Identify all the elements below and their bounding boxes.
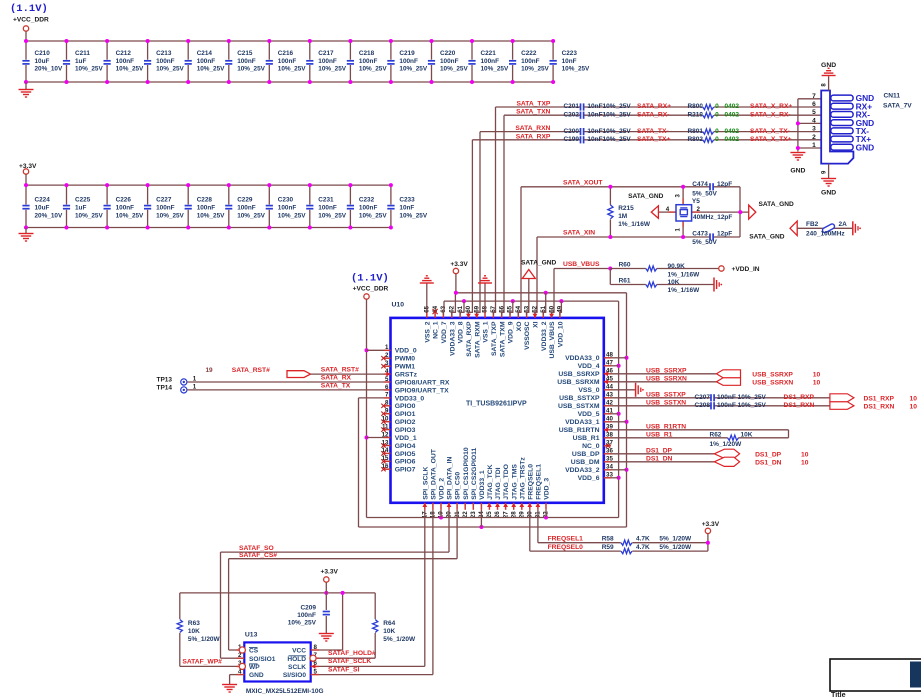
svg-text:SATA_RST#: SATA_RST# bbox=[232, 367, 270, 374]
svg-text:12pF: 12pF bbox=[717, 181, 732, 188]
svg-text:R801: R801 bbox=[687, 128, 703, 135]
svg-text:0402: 0402 bbox=[725, 111, 740, 118]
svg-text:USB_VBUS: USB_VBUS bbox=[549, 321, 556, 358]
svg-text:100nF 10%_25V: 100nF 10%_25V bbox=[717, 402, 766, 409]
svg-text:0402: 0402 bbox=[725, 128, 740, 135]
svg-text:SATA_TX: SATA_TX bbox=[321, 382, 351, 389]
svg-text:C232: C232 bbox=[359, 197, 375, 204]
svg-text:+3.3V: +3.3V bbox=[450, 261, 468, 268]
svg-text:USB_SSTXM: USB_SSTXM bbox=[558, 403, 600, 410]
svg-text:100nF: 100nF bbox=[237, 205, 256, 212]
svg-text:20%_10V: 20%_10V bbox=[35, 212, 63, 219]
svg-text:GPIO3: GPIO3 bbox=[395, 427, 416, 434]
svg-text:SATA_GND: SATA_GND bbox=[759, 201, 795, 208]
svg-text:5%_50V: 5%_50V bbox=[692, 239, 717, 246]
svg-text:C201: C201 bbox=[563, 103, 579, 110]
svg-text:10%_25V: 10%_25V bbox=[481, 66, 509, 73]
svg-text:USB_SSTXN: USB_SSTXN bbox=[646, 399, 686, 406]
svg-text:USB_R1RTN: USB_R1RTN bbox=[646, 423, 686, 430]
svg-text:0402: 0402 bbox=[725, 136, 740, 143]
svg-text:100nF: 100nF bbox=[197, 205, 216, 212]
svg-text:PWM1: PWM1 bbox=[395, 364, 416, 371]
svg-text:5: 5 bbox=[812, 109, 816, 116]
svg-text:C228: C228 bbox=[197, 197, 213, 204]
svg-text:R58: R58 bbox=[602, 536, 614, 543]
svg-text:USB_SSTXP: USB_SSTXP bbox=[646, 391, 686, 398]
svg-text:C211: C211 bbox=[75, 50, 90, 57]
svg-text:GND: GND bbox=[821, 190, 836, 197]
svg-text:GPIO9/UART_TX: GPIO9/UART_TX bbox=[395, 387, 449, 394]
svg-text:VDD_8: VDD_8 bbox=[458, 321, 465, 343]
svg-text:5%_1/20W: 5%_1/20W bbox=[659, 544, 692, 551]
svg-text:SATA_X_RX+: SATA_X_RX+ bbox=[750, 103, 792, 110]
svg-text:10uF: 10uF bbox=[35, 58, 50, 65]
svg-text:10%_25V: 10%_25V bbox=[278, 66, 306, 73]
svg-text:DS1_DN: DS1_DN bbox=[646, 455, 673, 462]
svg-text:4.7K: 4.7K bbox=[636, 544, 650, 551]
svg-text:C213: C213 bbox=[156, 50, 172, 57]
svg-text:R61: R61 bbox=[619, 277, 631, 284]
svg-text:GPIO5: GPIO5 bbox=[395, 451, 416, 458]
svg-text:FREQSEL0: FREQSEL0 bbox=[527, 464, 534, 500]
svg-text:SATA_RXN: SATA_RXN bbox=[515, 125, 550, 132]
svg-text:VSS_0: VSS_0 bbox=[578, 387, 599, 394]
svg-text:USB_SSTXP: USB_SSTXP bbox=[559, 395, 600, 402]
svg-text:JTAG_TRSTz: JTAG_TRSTz bbox=[519, 457, 526, 500]
svg-text:SATAF_HOLD#: SATAF_HOLD# bbox=[328, 650, 376, 657]
svg-text:10%_25V: 10%_25V bbox=[399, 66, 427, 73]
svg-text:GPIO7: GPIO7 bbox=[395, 467, 416, 474]
svg-text:C474: C474 bbox=[692, 181, 708, 188]
svg-text:SO/SIO1: SO/SIO1 bbox=[249, 656, 276, 663]
svg-text:10%_25V: 10%_25V bbox=[197, 66, 225, 73]
svg-text:VDD_6: VDD_6 bbox=[578, 475, 600, 482]
svg-text:SATA_RX+: SATA_RX+ bbox=[637, 103, 671, 110]
svg-text:10%_25V: 10%_25V bbox=[359, 212, 387, 219]
svg-text:R215: R215 bbox=[618, 205, 634, 212]
svg-text:XO: XO bbox=[516, 322, 523, 332]
svg-text:C473: C473 bbox=[692, 230, 708, 237]
svg-text:DS1_RXP: DS1_RXP bbox=[864, 395, 895, 402]
svg-text:JTAG_TCK: JTAG_TCK bbox=[487, 464, 494, 499]
svg-text:10%_25V: 10%_25V bbox=[116, 66, 144, 73]
svg-text:5: 5 bbox=[385, 376, 389, 383]
svg-text:USB_R1: USB_R1 bbox=[646, 431, 673, 438]
svg-text:SPI_CS2GPIO11: SPI_CS2GPIO11 bbox=[471, 447, 478, 499]
svg-text:10%_25V: 10%_25V bbox=[197, 212, 225, 219]
svg-text:1%_1/16W: 1%_1/16W bbox=[668, 271, 701, 278]
svg-text:1: 1 bbox=[812, 142, 816, 149]
svg-text:SATA_X_TX-: SATA_X_TX- bbox=[750, 128, 790, 135]
svg-text:10: 10 bbox=[813, 371, 821, 378]
svg-text:10%_25V: 10%_25V bbox=[521, 66, 549, 73]
svg-text:+VCC_DDR: +VCC_DDR bbox=[13, 17, 49, 24]
svg-text:4: 4 bbox=[812, 117, 816, 124]
svg-text:C209: C209 bbox=[300, 605, 316, 612]
svg-text:VSSOSC: VSSOSC bbox=[524, 321, 531, 349]
svg-text:USB_SSRXM: USB_SSRXM bbox=[557, 379, 600, 386]
svg-text:C200: C200 bbox=[563, 128, 579, 135]
svg-text:5%_1/20W: 5%_1/20W bbox=[383, 636, 416, 643]
svg-text:0: 0 bbox=[715, 111, 719, 118]
svg-text:100nF: 100nF bbox=[481, 58, 500, 65]
svg-text:SPI_SCLK: SPI_SCLK bbox=[422, 466, 429, 499]
svg-text:C233: C233 bbox=[399, 197, 415, 204]
svg-text:VCC: VCC bbox=[292, 648, 306, 655]
svg-text:R60: R60 bbox=[619, 261, 631, 268]
svg-text:20%_10V: 20%_10V bbox=[35, 66, 63, 73]
svg-text:DS1_RXN: DS1_RXN bbox=[864, 403, 895, 410]
svg-text:GND: GND bbox=[790, 168, 805, 175]
svg-text:R219: R219 bbox=[687, 111, 703, 118]
svg-text:VDD_0: VDD_0 bbox=[395, 348, 417, 355]
svg-text:USB_SSRXN: USB_SSRXN bbox=[646, 375, 687, 382]
svg-text:SATAF_WP#: SATAF_WP# bbox=[182, 658, 222, 665]
svg-text:(1.1V): (1.1V) bbox=[351, 273, 389, 285]
svg-text:SATA_XIN: SATA_XIN bbox=[563, 230, 595, 237]
svg-text:GPIO6: GPIO6 bbox=[395, 459, 416, 466]
svg-text:+3.3V: +3.3V bbox=[702, 521, 720, 528]
svg-text:10uF: 10uF bbox=[35, 205, 50, 212]
svg-text:10nF10%_25V: 10nF10%_25V bbox=[587, 103, 631, 110]
svg-text:TP13: TP13 bbox=[157, 377, 173, 384]
svg-text:VDD_4: VDD_4 bbox=[578, 363, 600, 370]
svg-text:USB_SSRXP: USB_SSRXP bbox=[558, 371, 600, 378]
svg-text:VDD33_0: VDD33_0 bbox=[395, 395, 425, 402]
svg-text:10%_25V: 10%_25V bbox=[399, 212, 427, 219]
svg-text:C223: C223 bbox=[562, 50, 578, 57]
svg-text:C224: C224 bbox=[35, 197, 51, 204]
svg-text:SATA_RX: SATA_RX bbox=[321, 375, 352, 382]
svg-text:USB_SSRXP: USB_SSRXP bbox=[646, 367, 687, 374]
svg-text:SATA_GND: SATA_GND bbox=[521, 259, 557, 266]
svg-text:JTAG_TMS: JTAG_TMS bbox=[511, 464, 518, 500]
svg-text:1: 1 bbox=[385, 344, 389, 351]
svg-text:SATA_TXN: SATA_TXN bbox=[516, 109, 550, 116]
svg-text:10%_25V: 10%_25V bbox=[156, 66, 184, 73]
svg-text:C226: C226 bbox=[116, 197, 132, 204]
svg-text:GND: GND bbox=[856, 142, 875, 152]
svg-text:MXIC_MX25L512EMI-10G: MXIC_MX25L512EMI-10G bbox=[246, 688, 324, 695]
svg-text:10: 10 bbox=[910, 403, 918, 410]
svg-text:GPIO2: GPIO2 bbox=[395, 419, 416, 426]
svg-text:10%_25V: 10%_25V bbox=[237, 66, 265, 73]
svg-text:USB_VBUS: USB_VBUS bbox=[563, 261, 600, 268]
svg-text:10: 10 bbox=[910, 395, 918, 402]
svg-text:SCLK: SCLK bbox=[288, 664, 306, 671]
svg-text:NC_0: NC_0 bbox=[582, 443, 600, 450]
svg-text:5: 5 bbox=[314, 668, 318, 675]
svg-text:5%_1/20W: 5%_1/20W bbox=[659, 536, 692, 543]
svg-text:C207: C207 bbox=[694, 394, 710, 401]
svg-text:10%_25V: 10%_25V bbox=[75, 212, 103, 219]
svg-text:FREQSEL1: FREQSEL1 bbox=[548, 536, 584, 543]
svg-text:7: 7 bbox=[385, 392, 389, 399]
svg-text:R64: R64 bbox=[383, 620, 395, 627]
svg-text:VDD33_1: VDD33_1 bbox=[479, 470, 486, 500]
svg-text:XI: XI bbox=[533, 321, 540, 328]
svg-text:SATA_GND: SATA_GND bbox=[628, 193, 664, 200]
svg-text:10K: 10K bbox=[668, 279, 680, 286]
svg-text:GPIO4: GPIO4 bbox=[395, 443, 416, 450]
svg-text:SATA_RXP: SATA_RXP bbox=[466, 321, 473, 357]
svg-text:C212: C212 bbox=[116, 50, 132, 57]
svg-text:GPIO1: GPIO1 bbox=[395, 411, 416, 418]
svg-text:VDDA33_3: VDDA33_3 bbox=[449, 321, 456, 356]
svg-text:VDD33_2: VDD33_2 bbox=[541, 321, 548, 351]
svg-text:CN11: CN11 bbox=[884, 93, 901, 100]
svg-text:100nF: 100nF bbox=[197, 58, 216, 65]
svg-text:3: 3 bbox=[812, 126, 816, 133]
svg-text:SATAF_SCLK: SATAF_SCLK bbox=[328, 658, 371, 665]
svg-text:TI_TUSB9261IPVP: TI_TUSB9261IPVP bbox=[466, 401, 527, 408]
svg-text:100nF: 100nF bbox=[521, 58, 540, 65]
svg-text:C227: C227 bbox=[156, 197, 172, 204]
svg-text:100nF: 100nF bbox=[237, 58, 256, 65]
svg-text:DS1_DP: DS1_DP bbox=[755, 451, 782, 458]
svg-text:100nF: 100nF bbox=[359, 205, 378, 212]
svg-text:C222: C222 bbox=[521, 50, 537, 57]
svg-text:DS1_RXP: DS1_RXP bbox=[784, 394, 815, 401]
svg-text:10%_25V: 10%_25V bbox=[318, 212, 346, 219]
svg-text:100nF 10%_25V: 100nF 10%_25V bbox=[717, 394, 766, 401]
svg-text:R800: R800 bbox=[687, 103, 703, 110]
svg-text:10: 10 bbox=[813, 379, 821, 386]
svg-text:6: 6 bbox=[812, 101, 816, 108]
svg-text:10%_25V: 10%_25V bbox=[288, 620, 317, 627]
svg-text:10%_25V: 10%_25V bbox=[562, 66, 590, 73]
svg-text:DS1_DN: DS1_DN bbox=[755, 459, 782, 466]
svg-text:FB2: FB2 bbox=[806, 221, 819, 228]
svg-text:10%_25V: 10%_25V bbox=[75, 66, 103, 73]
svg-text:SPI_CS0: SPI_CS0 bbox=[455, 472, 462, 500]
svg-text:100nF: 100nF bbox=[399, 58, 418, 65]
svg-text:C208: C208 bbox=[694, 402, 710, 409]
svg-text:4.7K: 4.7K bbox=[636, 536, 650, 543]
svg-text:100nF: 100nF bbox=[440, 58, 459, 65]
svg-text:CS: CS bbox=[249, 648, 259, 655]
svg-text:0402: 0402 bbox=[725, 103, 740, 110]
svg-text:C218: C218 bbox=[359, 50, 375, 57]
svg-text:JTAG_TDI: JTAG_TDI bbox=[495, 467, 502, 499]
svg-text:VDD_9: VDD_9 bbox=[508, 321, 515, 343]
svg-text:PWM0: PWM0 bbox=[395, 356, 416, 363]
svg-text:VDDA33_2: VDDA33_2 bbox=[565, 467, 600, 474]
svg-text:VDD_10: VDD_10 bbox=[558, 321, 565, 347]
svg-text:100nF: 100nF bbox=[116, 205, 135, 212]
svg-text:1uF: 1uF bbox=[75, 205, 86, 212]
svg-text:SATAF_SI: SATAF_SI bbox=[328, 666, 359, 673]
svg-text:SATAF_SO: SATAF_SO bbox=[239, 545, 274, 552]
svg-text:100nF: 100nF bbox=[278, 58, 297, 65]
svg-text:GND: GND bbox=[821, 62, 836, 69]
svg-text:SATA_RST#: SATA_RST# bbox=[321, 367, 359, 374]
svg-text:R63: R63 bbox=[188, 620, 200, 627]
svg-text:10%_25V: 10%_25V bbox=[237, 212, 265, 219]
svg-text:SATAF_CS#: SATAF_CS# bbox=[239, 552, 277, 559]
svg-text:VDD_7: VDD_7 bbox=[441, 321, 448, 343]
svg-text:8: 8 bbox=[385, 400, 389, 407]
svg-text:U13: U13 bbox=[245, 632, 258, 639]
svg-text:+3.3V: +3.3V bbox=[19, 163, 37, 170]
svg-text:Title: Title bbox=[831, 690, 846, 697]
svg-text:1M: 1M bbox=[618, 213, 627, 220]
svg-text:5%_1/20W: 5%_1/20W bbox=[188, 636, 221, 643]
svg-text:SATA_X_TX+: SATA_X_TX+ bbox=[750, 136, 792, 143]
svg-text:3: 3 bbox=[385, 360, 389, 367]
svg-text:VDD_3: VDD_3 bbox=[544, 478, 551, 500]
svg-text:USB_R1: USB_R1 bbox=[573, 435, 600, 442]
svg-text:10nF: 10nF bbox=[562, 58, 577, 65]
svg-text:10K: 10K bbox=[383, 628, 395, 635]
svg-text:JTAG_TDO: JTAG_TDO bbox=[503, 464, 510, 500]
svg-text:SATA_XOUT: SATA_XOUT bbox=[563, 179, 603, 186]
svg-text:1%_1/16W: 1%_1/16W bbox=[618, 221, 651, 228]
svg-text:SATA_TXP: SATA_TXP bbox=[516, 101, 550, 108]
svg-text:TP14: TP14 bbox=[157, 385, 173, 392]
svg-text:USB_SSRXP: USB_SSRXP bbox=[752, 371, 793, 378]
svg-text:SATA_TXP: SATA_TXP bbox=[491, 321, 498, 356]
svg-text:1: 1 bbox=[193, 376, 197, 383]
svg-text:C214: C214 bbox=[197, 50, 213, 57]
svg-text:10nF10%_25V: 10nF10%_25V bbox=[587, 128, 631, 135]
svg-text:12pF: 12pF bbox=[717, 230, 732, 237]
svg-text:R59: R59 bbox=[602, 544, 614, 551]
svg-text:U10: U10 bbox=[392, 302, 405, 309]
svg-text:10%_25V: 10%_25V bbox=[318, 66, 346, 73]
svg-text:8: 8 bbox=[314, 644, 318, 651]
svg-text:C217: C217 bbox=[318, 50, 334, 57]
svg-text:100nF: 100nF bbox=[278, 205, 297, 212]
svg-text:0: 0 bbox=[715, 128, 719, 135]
svg-text:VDDA33_0: VDDA33_0 bbox=[565, 355, 600, 362]
svg-text:GND: GND bbox=[249, 672, 264, 679]
svg-text:VDD_1: VDD_1 bbox=[395, 435, 417, 442]
svg-text:(1.1V): (1.1V) bbox=[10, 3, 48, 15]
svg-text:C219: C219 bbox=[399, 50, 415, 57]
svg-text:C202: C202 bbox=[563, 111, 579, 118]
svg-text:SPI_DATA_OUT: SPI_DATA_OUT bbox=[431, 448, 438, 500]
svg-text:C229: C229 bbox=[237, 197, 253, 204]
svg-text:10%_25V: 10%_25V bbox=[156, 212, 184, 219]
svg-text:10K: 10K bbox=[741, 431, 753, 438]
svg-text:R802: R802 bbox=[687, 136, 703, 143]
svg-text:5%_50V: 5%_50V bbox=[692, 191, 717, 198]
svg-text:100nF: 100nF bbox=[156, 58, 175, 65]
svg-text:0: 0 bbox=[715, 136, 719, 143]
svg-text:SATA_RX-: SATA_RX- bbox=[637, 111, 669, 118]
svg-text:9: 9 bbox=[385, 408, 389, 415]
svg-text:+VDD_IN: +VDD_IN bbox=[732, 266, 760, 273]
svg-text:C216: C216 bbox=[278, 50, 294, 57]
svg-text:Y5: Y5 bbox=[692, 198, 700, 205]
svg-text:C230: C230 bbox=[278, 197, 294, 204]
svg-text:VDD_5: VDD_5 bbox=[578, 411, 600, 418]
svg-text:VDDA33_1: VDDA33_1 bbox=[565, 419, 600, 426]
svg-text:SATA_TX+: SATA_TX+ bbox=[637, 136, 670, 143]
svg-text:SATA_RXP: SATA_RXP bbox=[516, 133, 551, 140]
svg-text:10: 10 bbox=[801, 459, 809, 466]
svg-text:2: 2 bbox=[385, 352, 389, 359]
svg-text:SATA_GND: SATA_GND bbox=[749, 234, 785, 241]
svg-text:10%_25V: 10%_25V bbox=[440, 66, 468, 73]
svg-text:GPIO0: GPIO0 bbox=[395, 403, 416, 410]
svg-text:DS1_DP: DS1_DP bbox=[646, 447, 673, 454]
svg-text:100nF: 100nF bbox=[318, 58, 337, 65]
svg-text:10%_25V: 10%_25V bbox=[359, 66, 387, 73]
svg-text:C225: C225 bbox=[75, 197, 91, 204]
svg-text:C215: C215 bbox=[237, 50, 253, 57]
svg-text:100nF: 100nF bbox=[116, 58, 135, 65]
svg-text:100nF: 100nF bbox=[156, 205, 175, 212]
svg-text:C199: C199 bbox=[563, 136, 579, 143]
svg-text:10%_25V: 10%_25V bbox=[278, 212, 306, 219]
svg-text:SATA_7V: SATA_7V bbox=[883, 103, 912, 110]
svg-text:240_100MHz: 240_100MHz bbox=[806, 230, 845, 237]
svg-text:100nF: 100nF bbox=[359, 58, 378, 65]
svg-text:GRSTz: GRSTz bbox=[395, 372, 418, 379]
svg-text:0: 0 bbox=[715, 103, 719, 110]
svg-text:1%_1/16W: 1%_1/16W bbox=[668, 287, 701, 294]
svg-text:USB_R1RTN: USB_R1RTN bbox=[559, 427, 600, 434]
svg-text:19: 19 bbox=[206, 367, 214, 374]
svg-text:7: 7 bbox=[812, 93, 816, 100]
svg-text:1: 1 bbox=[193, 384, 197, 391]
svg-text:100nF: 100nF bbox=[318, 205, 337, 212]
svg-text:HOLD: HOLD bbox=[287, 656, 306, 663]
svg-text:SPI_DATA_IN: SPI_DATA_IN bbox=[447, 457, 454, 500]
svg-text:R62: R62 bbox=[710, 431, 722, 438]
svg-text:1uF: 1uF bbox=[75, 58, 86, 65]
svg-text:DS1_RXN: DS1_RXN bbox=[784, 402, 815, 409]
svg-text:90.9K: 90.9K bbox=[668, 263, 686, 270]
svg-text:40MHz_12pF: 40MHz_12pF bbox=[693, 214, 732, 221]
svg-text:10nF: 10nF bbox=[399, 205, 414, 212]
svg-text:VSS_1: VSS_1 bbox=[483, 321, 490, 342]
svg-text:SATA_RXM: SATA_RXM bbox=[474, 321, 481, 358]
svg-text:SI/SIO0: SI/SIO0 bbox=[283, 672, 306, 679]
svg-text:FREQSEL0: FREQSEL0 bbox=[548, 544, 584, 551]
svg-text:10K: 10K bbox=[188, 628, 200, 635]
svg-text:100nF: 100nF bbox=[297, 612, 316, 619]
svg-text:GPIO8/UART_RX: GPIO8/UART_RX bbox=[395, 379, 450, 386]
svg-text:VDD_2: VDD_2 bbox=[439, 478, 446, 500]
svg-text:10nF10%_25V: 10nF10%_25V bbox=[587, 136, 631, 143]
svg-text:+VCC_DDR: +VCC_DDR bbox=[353, 286, 389, 293]
svg-text:2: 2 bbox=[812, 134, 816, 141]
svg-text:+3.3V: +3.3V bbox=[321, 569, 339, 576]
svg-text:2: 2 bbox=[697, 206, 701, 213]
svg-text:SATA_TXM: SATA_TXM bbox=[499, 321, 506, 357]
svg-text:FREQSEL1: FREQSEL1 bbox=[536, 464, 543, 500]
svg-text:C221: C221 bbox=[481, 50, 497, 57]
svg-text:10%_25V: 10%_25V bbox=[116, 212, 144, 219]
svg-text:SPI_CS1GPIO10: SPI_CS1GPIO10 bbox=[463, 447, 470, 500]
svg-text:NC_1: NC_1 bbox=[433, 321, 440, 339]
svg-text:C231: C231 bbox=[318, 197, 334, 204]
svg-text:WP: WP bbox=[249, 664, 260, 671]
svg-text:USB_DP: USB_DP bbox=[572, 451, 600, 458]
svg-text:4: 4 bbox=[666, 206, 670, 213]
svg-text:C210: C210 bbox=[35, 50, 51, 57]
svg-text:10nF10%_25V: 10nF10%_25V bbox=[587, 111, 631, 118]
svg-text:SATA_TX-: SATA_TX- bbox=[637, 128, 669, 135]
svg-text:6: 6 bbox=[385, 384, 389, 391]
svg-text:VSS_2: VSS_2 bbox=[424, 321, 431, 342]
svg-text:C220: C220 bbox=[440, 50, 456, 57]
svg-text:USB_SSRXN: USB_SSRXN bbox=[752, 379, 793, 386]
svg-text:2A: 2A bbox=[839, 221, 848, 228]
